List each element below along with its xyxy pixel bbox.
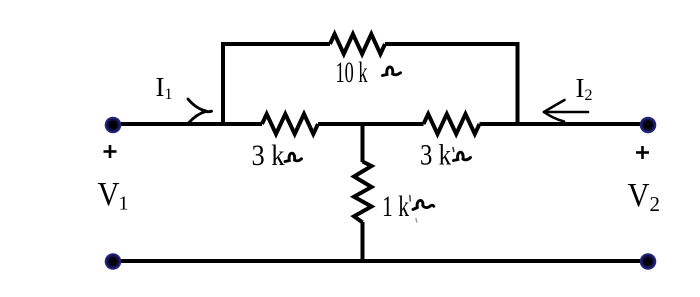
svg-text:10 k: 10 k (336, 56, 368, 89)
wire middle right (to node V2) (480, 122, 651, 126)
value label 1k apostrophe tick (409, 196, 412, 202)
terminal dot top-left (105, 117, 122, 134)
value label 10k ohm glyph (383, 67, 401, 76)
wire middle left (from node V1 to 3k left) (111, 122, 262, 126)
terminal dot bottom-right (640, 253, 657, 270)
wire 1k branch upper (361, 124, 365, 162)
svg-text:1: 1 (119, 193, 129, 215)
svg-text:3 k: 3 k (420, 139, 451, 172)
svg-text:V: V (98, 176, 120, 213)
svg-text:1 k: 1 k (382, 190, 409, 223)
value label 1k gray tick below (415, 219, 418, 223)
value label 3k-right apostrophe tick (452, 148, 455, 152)
svg-text:2: 2 (650, 192, 661, 216)
terminal dot top-right (640, 117, 657, 134)
resistor 3k right zigzag (424, 114, 480, 134)
svg-text:3 k: 3 k (252, 139, 285, 172)
arrow I1 (curved arrowhead pointing right) (188, 99, 212, 123)
resistor 1k zigzag (354, 162, 372, 223)
label plus sign right (636, 146, 649, 159)
svg-text:V: V (628, 177, 650, 214)
value label 1k ohm glyph (413, 200, 434, 209)
wire top-right segment and right vertical of top loop (385, 44, 518, 126)
wire bottom (111, 259, 650, 263)
value label 3k-right ohm glyph (454, 152, 471, 160)
resistor 3k left zigzag (262, 114, 318, 134)
label plus sign left (104, 145, 117, 158)
resistor R 10k zigzag (330, 34, 385, 54)
wire 1k branch lower (361, 222, 365, 263)
wire top loop left vertical and top-left segment (223, 44, 330, 126)
wire middle center (between 3k resistors) (318, 122, 424, 126)
value label 3k-left ohm glyph (285, 153, 302, 161)
arrow I2 (left-pointing arrow with shaft) (544, 100, 588, 122)
terminal dot bottom-left (105, 253, 122, 270)
